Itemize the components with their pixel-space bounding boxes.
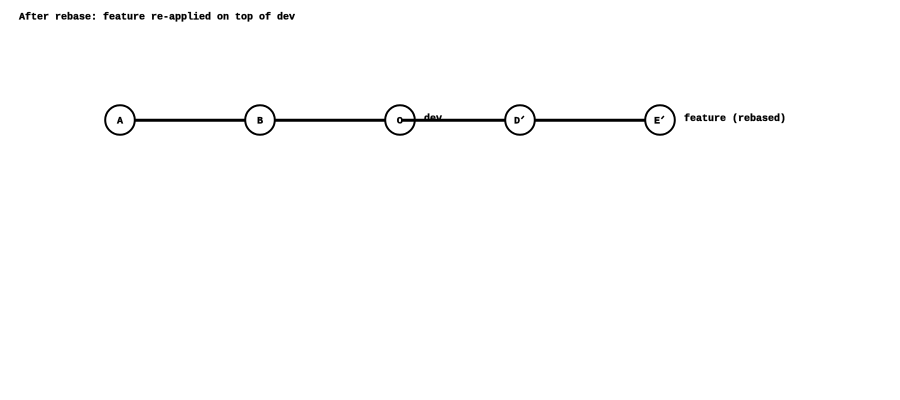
svg-text:feature (rebased): feature (rebased) [684, 113, 786, 125]
svg-text:D: D [514, 117, 520, 128]
svg-text:After rebase: feature re-appli: After rebase: feature re-applied on top … [19, 12, 295, 24]
svg-text:E: E [654, 117, 660, 128]
svg-text:dev: dev [424, 113, 442, 125]
svg-text:A: A [117, 117, 123, 128]
svg-text:C: C [397, 117, 403, 128]
svg-text:B: B [257, 117, 263, 128]
